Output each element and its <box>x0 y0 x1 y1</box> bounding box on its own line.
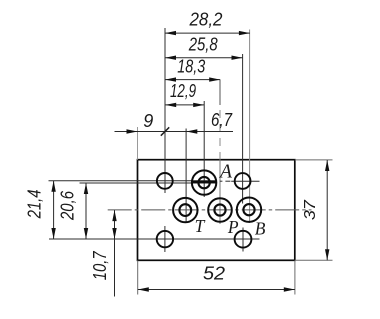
centerline bottom row horizontal <box>49 238 260 240</box>
bolt hole bottom-left <box>157 231 173 247</box>
centerline top-right hole horizontal dash 2 <box>225 180 230 182</box>
extension bar through port A <box>192 181 216 184</box>
svg-text:6,7: 6,7 <box>211 110 233 130</box>
extension line plate left edge above <box>137 127 139 160</box>
port T outer <box>173 198 197 222</box>
centerline vB B column <box>249 30 251 224</box>
svg-text:37: 37 <box>302 199 319 220</box>
dimension line 20,6 <box>84 183 88 239</box>
extension line 20,6 through port A center <box>80 182 217 184</box>
dimension line 28,2 <box>165 31 250 35</box>
svg-text:21,4: 21,4 <box>24 189 44 219</box>
svg-text:P: P <box>227 217 239 237</box>
slash tick at 9/6,7 junction <box>161 127 169 135</box>
port A inner <box>198 177 209 188</box>
port T inner <box>179 204 191 216</box>
centerline vP P column middle dashed <box>219 105 221 160</box>
port P inner <box>214 204 225 215</box>
extension line 21,4 through top bolt row <box>49 180 217 182</box>
svg-text:10,7: 10,7 <box>90 250 110 280</box>
dimension line 18,3 <box>165 77 220 81</box>
plate outline <box>138 160 295 261</box>
svg-text:52: 52 <box>203 264 225 284</box>
centerline v4 right bolt column <box>242 54 244 204</box>
dimension line 12,9 <box>165 103 204 107</box>
svg-text:T: T <box>195 216 206 236</box>
centerline vA A column <box>203 101 205 197</box>
extension line plate bottom right <box>295 259 333 261</box>
port B outer <box>237 198 261 222</box>
centerline vT T column <box>185 129 187 224</box>
centerline top-right hole horizontal dash 1 <box>220 180 223 182</box>
svg-text:12,9: 12,9 <box>170 81 196 101</box>
centerline top-right hole horizontal main <box>231 180 259 182</box>
svg-text:20,6: 20,6 <box>57 190 77 221</box>
svg-text:B: B <box>255 219 266 239</box>
dimension line 10,7 <box>112 210 116 296</box>
svg-text:18,3: 18,3 <box>177 57 205 77</box>
centerline v1 left bolt column <box>164 28 166 193</box>
extension line plate top right <box>295 159 333 161</box>
svg-text:A: A <box>218 161 233 183</box>
extension line plate right edge below <box>294 260 296 294</box>
centerline vP P column upper solid <box>219 80 221 105</box>
bolt hole top-right <box>235 173 251 189</box>
svg-text:25,8: 25,8 <box>188 34 218 54</box>
centerline middle row horizontal <box>108 209 312 211</box>
svg-text:9: 9 <box>143 111 153 131</box>
port A outer <box>192 170 216 194</box>
port B inner <box>243 204 254 215</box>
dimension line 52 <box>138 287 295 291</box>
bolt hole top-left <box>157 173 173 189</box>
dimension line 9 and 6,7 <box>115 129 234 133</box>
port P outer <box>208 198 232 222</box>
extension line plate left edge below <box>137 260 139 294</box>
centerline bottom-right hole vertical <box>242 228 244 252</box>
dimension line 25,8 <box>165 56 243 60</box>
svg-text:28,2: 28,2 <box>189 10 223 30</box>
centerline vP P column lower <box>219 160 221 224</box>
bolt hole bottom-right <box>235 231 252 248</box>
centerline bottom-left hole vertical <box>164 226 166 252</box>
dimension line 37 <box>325 160 329 260</box>
dimension line 21,4 <box>51 181 55 239</box>
